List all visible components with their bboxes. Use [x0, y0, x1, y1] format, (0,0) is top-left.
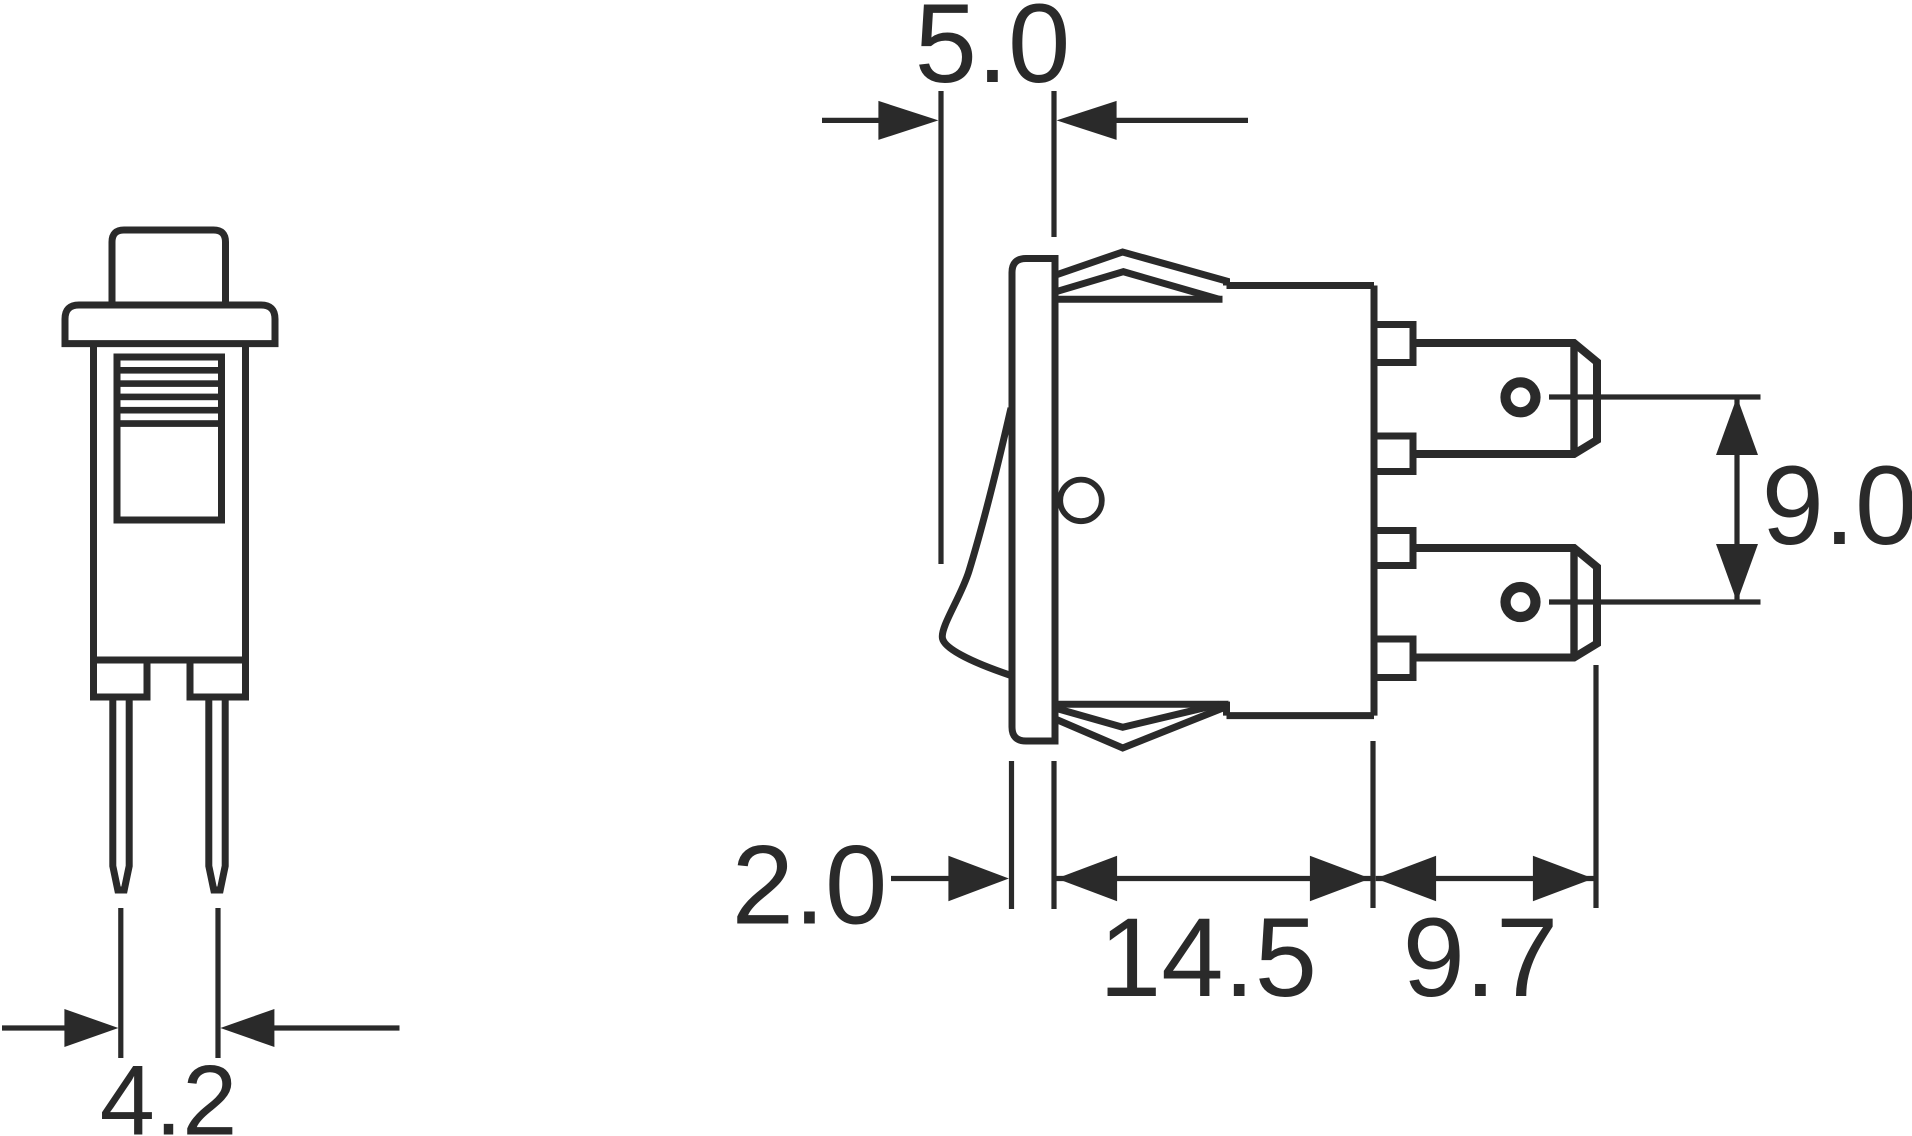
svg-text:5.0: 5.0 — [915, 0, 1071, 106]
svg-text:14.5: 14.5 — [1099, 895, 1317, 1020]
svg-text:4.2: 4.2 — [100, 1045, 238, 1136]
svg-text:9.0: 9.0 — [1762, 443, 1912, 568]
svg-text:2.0: 2.0 — [732, 823, 888, 948]
svg-text:9.7: 9.7 — [1403, 895, 1559, 1020]
